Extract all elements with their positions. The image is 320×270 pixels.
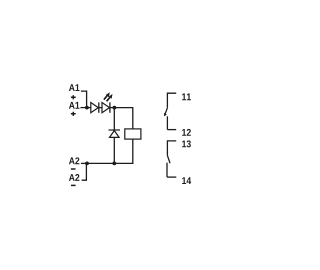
wire from upper A2 to node C [81,162,87,164]
junction dot node A [85,106,89,110]
contact arm arrowhead [164,113,167,116]
plus polarity mark under upper A1 [71,95,76,99]
contact 14 terminal bracket [167,176,176,178]
wire LED to node B [110,107,115,109]
label 12 [182,129,191,136]
minus polarity mark under upper A2 [71,168,76,170]
wire from lower A2 up to node C [82,163,87,180]
freewheeling diode D2 (points up) [110,131,120,138]
contact 11 terminal bracket [167,93,176,108]
wire node B to coil branch corner [114,108,132,129]
contact 12 terminal bracket [167,129,176,131]
junction dot node C (A2 tie) [85,162,89,166]
contact 13 terminal bracket [167,141,176,156]
label 14 [182,177,191,184]
minus polarity mark under lower A2 [71,184,76,186]
wire D1 to LED [99,107,102,109]
relay coil K1 [125,129,141,139]
LED V1 status indicator [102,103,110,113]
contact 11-12 moving arm [165,108,167,114]
junction dot on rail at freewheeling diode [112,162,116,166]
contact 14 fixed lead [166,163,168,178]
junction dot node B [113,106,117,110]
wire freewheeling diode to bottom rail [113,137,115,163]
plus polarity mark under lower A1 [71,112,76,116]
diode D1 cathode bar [98,102,100,112]
freewheeling diode D2 cathode bar [109,129,121,131]
wire node B down to freewheeling diode [113,108,115,130]
LED emission arrow 2 [107,94,113,101]
terminal label A1 (upper) [69,84,80,91]
terminal label A2 (lower) [69,174,79,181]
label 13 [182,140,191,147]
wire from lower A1 to node A [80,107,87,109]
LED cathode bar [109,102,111,112]
wire coil bottom to bottom rail [87,139,133,163]
contact 13-14 moving arm (open) [167,155,170,163]
terminal label A1 (lower) [69,102,80,109]
contact 12 fixed lead [166,116,168,129]
wire from upper A1 to node A [81,91,87,108]
terminal label A2 (upper) [69,157,79,164]
label 11 [182,93,191,100]
wire node A to diode D1 [87,107,91,109]
diode D1 (polarity protection) [91,103,99,113]
LED emission arrow 1 [104,92,110,99]
